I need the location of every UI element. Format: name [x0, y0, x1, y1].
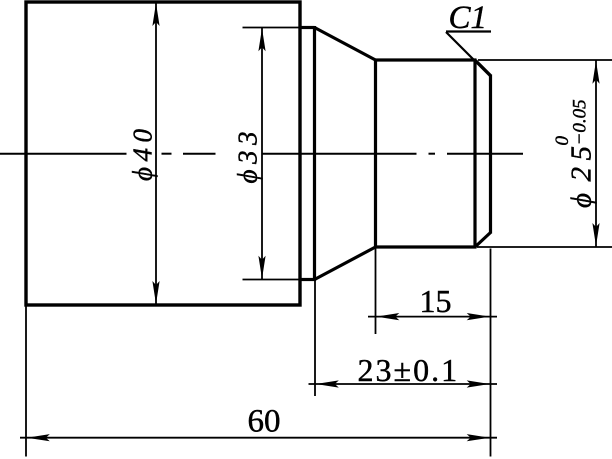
- C1 leader line: [446, 32, 490, 76]
- 15 arrows: [376, 313, 399, 320]
- 23 arrows: [316, 380, 339, 387]
- svg-text:ϕ33: ϕ33: [233, 126, 263, 183]
- phi40 arrows: [152, 3, 159, 26]
- phi40 dimension line: [155, 2, 157, 305]
- phi25 extension lines: [478, 59, 612, 61]
- svg-text:ϕ40: ϕ40: [128, 124, 158, 181]
- svg-text:15: 15: [420, 283, 452, 319]
- phi33 cylinder outline: [299, 26, 315, 281]
- extension line x26 for 60 dim: [25, 307, 27, 457]
- extension line x490.5 for 15/23/60 dims: [490, 249, 492, 457]
- svg-text:23±0.1: 23±0.1: [358, 352, 460, 388]
- extension line x315 for 23 dim: [314, 281, 316, 396]
- phi33 dimension line: [261, 28, 263, 280]
- chamfer C1 facets and end face: [475, 60, 491, 247]
- chamfer edge circle: [473, 60, 476, 247]
- phi33 extension lines: [243, 27, 299, 29]
- phi25 cylinder outline: [376, 60, 477, 247]
- svg-text:C1: C1: [449, 0, 488, 36]
- extension line x375.5 for 15 dim: [375, 249, 377, 335]
- 23 dimension line: [309, 383, 498, 385]
- phi25 arrows: [592, 61, 599, 84]
- cone taper outline: [315, 28, 376, 280]
- 60 arrows: [27, 434, 50, 441]
- 15 dimension line: [368, 316, 497, 318]
- phi25 dimension line: [595, 60, 597, 247]
- svg-text:60: 60: [248, 404, 281, 440]
- phi40 cylinder outline: [26, 2, 300, 305]
- phi33 arrows: [258, 28, 265, 51]
- 60 dimension line: [20, 437, 497, 439]
- centerline: [0, 153, 523, 155]
